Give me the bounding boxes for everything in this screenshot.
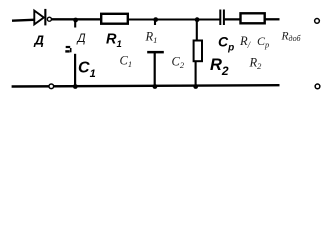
resistor R1: [101, 14, 128, 24]
capacitor C2 top plate: [147, 51, 164, 54]
node junction bottom 2: [153, 84, 158, 89]
svg-text:Д: Д: [34, 33, 45, 48]
node junction top 2: [153, 17, 158, 22]
capacitor C1 plate marks: [66, 46, 71, 48]
node junction bottom 1: [73, 84, 78, 89]
terminal bottom right: [315, 84, 320, 89]
terminal top right: [315, 19, 320, 24]
capacitor C1 plate tick: [70, 48, 72, 52]
wire C2 lower lead: [154, 53, 156, 87]
terminal bottom left on wire: [49, 84, 54, 89]
wire R2 bottom lead: [195, 62, 197, 87]
wire stub below junction 2: [154, 20, 156, 25]
node junction top 1: [73, 18, 78, 23]
node junction bottom 3: [193, 84, 198, 89]
resistor R2: [194, 41, 202, 62]
wire top main segment: [51, 18, 221, 20]
node junction top 3: [195, 17, 200, 22]
svg-text:Д: Д: [76, 33, 86, 45]
wire C1 lower lead: [74, 54, 76, 87]
wire R2 top lead: [196, 20, 198, 41]
wire top right segment: [265, 18, 280, 20]
wire bottom: [12, 85, 280, 86]
wire stub below junction 1: [74, 20, 76, 28]
capacitor Cp plates: [219, 10, 221, 26]
diode Д: [34, 9, 51, 26]
resistor Rdob: [241, 13, 265, 23]
wire top left segment: [12, 20, 36, 21]
wire capacitor to resistor segment: [225, 18, 241, 20]
